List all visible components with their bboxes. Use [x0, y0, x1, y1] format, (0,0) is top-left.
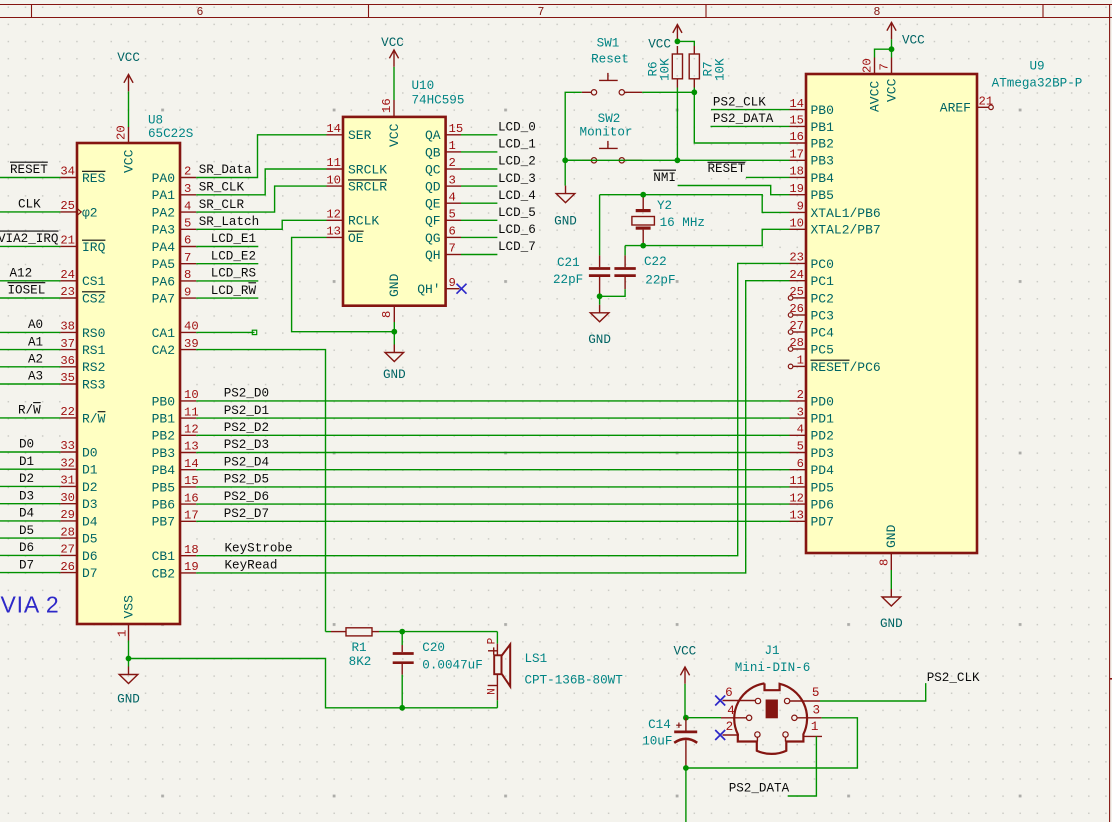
svg-text:Reset: Reset	[591, 53, 629, 67]
svg-text:XTAL1/PB6: XTAL1/PB6	[811, 206, 881, 221]
svg-text:VIA2_IRQ: VIA2_IRQ	[0, 232, 58, 246]
svg-text:A2: A2	[28, 353, 43, 367]
U9 pin 26 PC3	[793, 314, 806, 316]
svg-text:A1: A1	[28, 335, 43, 349]
svg-text:31: 31	[60, 474, 75, 488]
U8 pin 18 CB1	[180, 555, 196, 557]
svg-text:6: 6	[449, 225, 456, 239]
speaker LS1	[496, 632, 498, 644]
U8 pin 5 PA3	[180, 228, 196, 230]
U8 pin 25 φ2 / wire CLK	[0, 211, 60, 213]
U10 pin 8 GND (bottom)	[393, 306, 395, 322]
svg-text:PB3: PB3	[152, 446, 175, 461]
U8 pin 7 PA5	[180, 263, 196, 265]
svg-text:PB1: PB1	[152, 412, 176, 427]
svg-text:RS3: RS3	[82, 377, 105, 392]
U8 pin 37 RS1 / wire A1	[0, 349, 60, 351]
U8 pin 20 VCC (top)	[128, 127, 130, 143]
svg-text:KeyRead: KeyRead	[225, 559, 278, 573]
svg-text:25: 25	[789, 285, 804, 299]
svg-text:QH': QH'	[417, 282, 440, 297]
wire SR_Data	[196, 135, 326, 178]
U10 pin 10 SRCLR	[327, 185, 344, 187]
svg-text:GND: GND	[588, 333, 611, 347]
junction U10 GND node	[391, 329, 397, 335]
U8 pin 12 PB2	[180, 434, 196, 436]
U8 pin 36 RS2 / wire A2	[0, 366, 60, 368]
power symbol VCC above R6	[676, 25, 678, 42]
svg-text:Monitor: Monitor	[580, 126, 633, 140]
svg-text:PS2_DATA: PS2_DATA	[729, 781, 790, 795]
svg-text:SR_Latch: SR_Latch	[199, 215, 259, 229]
svg-text:PS2_CLK: PS2_CLK	[927, 671, 980, 685]
wire VCC to C14	[684, 684, 686, 718]
svg-text:22pF: 22pF	[645, 274, 675, 288]
svg-text:PC2: PC2	[811, 291, 834, 306]
svg-text:PD1: PD1	[811, 412, 835, 427]
svg-text:7: 7	[449, 242, 456, 256]
svg-text:0.0047uF: 0.0047uF	[422, 659, 482, 673]
svg-text:15: 15	[184, 474, 199, 488]
svg-text:PB2: PB2	[152, 429, 175, 444]
U9 pin 9 XTAL1/PB6	[790, 211, 807, 213]
U8 pin 21 IRQ / wire VIA2_IRQ	[0, 245, 60, 247]
svg-text:VCC: VCC	[387, 123, 402, 147]
svg-text:24: 24	[60, 268, 75, 282]
svg-text:PB7: PB7	[152, 515, 175, 530]
wire AVCC to VCC	[875, 49, 892, 57]
svg-text:CS2: CS2	[82, 291, 105, 306]
svg-text:VCC: VCC	[648, 38, 671, 52]
svg-text:D5: D5	[19, 524, 34, 538]
svg-text:D3: D3	[82, 497, 98, 512]
svg-text:27: 27	[60, 543, 75, 557]
svg-text:D0: D0	[82, 445, 98, 460]
U9 pin 20 AVCC (top)	[874, 58, 876, 75]
svg-text:QF: QF	[425, 214, 441, 229]
svg-text:27: 27	[789, 319, 804, 333]
svg-text:PC1: PC1	[811, 274, 835, 289]
svg-text:VCC: VCC	[674, 645, 697, 659]
svg-text:GND: GND	[383, 368, 406, 382]
wire LCD_2	[461, 168, 497, 170]
wire CA2 to R1	[196, 350, 325, 632]
svg-text:GND: GND	[117, 693, 140, 707]
wire LCD_0	[461, 134, 497, 136]
junction C21/C22 GND node	[597, 293, 603, 299]
U10 pin 2 QC	[446, 168, 461, 170]
svg-text:3: 3	[797, 405, 804, 419]
U8 pin 32 D1 / wire D1	[0, 468, 60, 470]
wire U8 VCC	[128, 91, 130, 127]
U10 pin 3 QD	[446, 185, 461, 187]
IC U10 74HC595 body	[343, 117, 446, 306]
svg-text:9: 9	[797, 200, 804, 214]
svg-text:28: 28	[789, 336, 804, 350]
svg-text:PB0: PB0	[152, 394, 175, 409]
svg-text:12: 12	[789, 491, 804, 505]
svg-text:28: 28	[60, 525, 75, 539]
svg-text:6: 6	[197, 6, 204, 19]
wire LCD_3	[461, 185, 497, 187]
U9 pin 4 PD2	[790, 434, 807, 436]
svg-text:12: 12	[184, 423, 199, 437]
U8 pin 39 CA2	[180, 349, 196, 351]
svg-text:35: 35	[60, 371, 75, 385]
svg-text:PA0: PA0	[152, 171, 175, 186]
svg-text:D6: D6	[82, 549, 98, 564]
U9 pin 28 PC5	[793, 348, 806, 350]
J1 pin 5	[790, 700, 820, 702]
svg-text:D7: D7	[82, 566, 98, 581]
svg-text:RES: RES	[82, 171, 106, 186]
power symbol VCC above C14	[684, 667, 686, 684]
IC U8 65C22S body	[77, 143, 180, 624]
svg-text:QH: QH	[425, 248, 441, 263]
svg-text:PB6: PB6	[152, 498, 175, 513]
svg-text:CLK: CLK	[18, 198, 41, 212]
U9 pin 13 PD7	[790, 520, 807, 522]
wire SW1 to R7 bottom node	[642, 91, 694, 93]
svg-text:QD: QD	[425, 180, 441, 195]
U10 pin 6 QG	[446, 236, 461, 238]
U8 pin 8 PA6	[180, 280, 196, 282]
junction R1/C20 node	[399, 629, 405, 635]
svg-text:QG: QG	[425, 231, 441, 246]
U9 pin 12 PD6	[790, 503, 807, 505]
U8 pin 26 D7 / wire D7	[0, 572, 60, 574]
U8 pin 11 PB1	[180, 417, 196, 419]
svg-text:7: 7	[538, 6, 545, 19]
svg-text:12: 12	[326, 208, 341, 222]
svg-text:6: 6	[725, 686, 733, 700]
svg-text:4: 4	[184, 199, 191, 213]
svg-text:11: 11	[184, 405, 199, 419]
svg-text:SR_CLR: SR_CLR	[199, 198, 245, 212]
svg-text:GND: GND	[387, 273, 402, 297]
svg-text:D5: D5	[82, 532, 98, 547]
svg-text:SR_CLK: SR_CLK	[199, 181, 245, 195]
U9 pin 25 PC2	[793, 297, 806, 299]
svg-text:PS2_D0: PS2_D0	[224, 387, 269, 401]
svg-text:U9: U9	[1029, 60, 1044, 74]
wire LCD_4	[461, 202, 497, 204]
no-connect X at U10 QH'	[457, 284, 467, 294]
svg-text:1: 1	[811, 720, 819, 734]
U8 pin 31 D2 / wire D2	[0, 485, 60, 487]
IC U9 ATmega328P body	[806, 74, 977, 553]
svg-text:P: P	[487, 637, 499, 644]
svg-text:C14: C14	[648, 718, 671, 732]
svg-text:J1: J1	[764, 644, 779, 658]
wire KeyRead	[196, 281, 789, 573]
power symbol GND below switches	[565, 186, 567, 194]
svg-text:18: 18	[184, 543, 199, 557]
svg-text:8: 8	[874, 6, 881, 19]
U10 pin 9 QH' (no connect)	[446, 288, 460, 290]
svg-text:18: 18	[789, 165, 804, 179]
svg-text:R/W: R/W	[18, 404, 41, 418]
svg-text:PS2_D2: PS2_D2	[224, 421, 269, 435]
wire C14 bottom to sheet bottom	[685, 768, 687, 822]
wire PS2_D1	[196, 417, 789, 419]
U9 pin 23 PC0	[790, 262, 807, 264]
wire PS2_D5	[196, 486, 789, 488]
svg-text:8: 8	[877, 559, 891, 566]
wire U8 GND to speaker rail	[129, 659, 498, 708]
power symbol GND below C21	[599, 305, 601, 313]
U10 pin 11 SRCLK	[327, 168, 344, 170]
svg-text:30: 30	[60, 491, 75, 505]
U9 pin 8 GND (bottom)	[890, 553, 892, 570]
svg-text:15: 15	[449, 122, 464, 136]
junction U8 GND node	[126, 656, 132, 662]
svg-text:LCD_1: LCD_1	[498, 138, 536, 152]
svg-text:2: 2	[797, 388, 804, 402]
svg-text:PA5: PA5	[152, 257, 175, 272]
U10 pin 14 SER	[327, 134, 344, 136]
svg-text:PC0: PC0	[811, 257, 834, 272]
wire PS2_D4	[196, 469, 789, 471]
svg-text:PC5: PC5	[811, 342, 834, 357]
svg-text:PD0: PD0	[811, 394, 834, 409]
no-connect X at J1 pin 2	[715, 730, 725, 740]
U10 pin 1 QB	[446, 151, 461, 153]
svg-text:PS2_DATA: PS2_DATA	[713, 112, 774, 126]
wire CA1 stub	[196, 331, 254, 333]
svg-text:7: 7	[878, 63, 892, 70]
svg-text:GND: GND	[884, 524, 899, 548]
svg-text:LS1: LS1	[525, 652, 548, 666]
capacitor C14 (polarized)	[685, 718, 687, 731]
svg-text:LCD_E2: LCD_E2	[211, 249, 256, 263]
U8 pin 6 PA4	[180, 246, 196, 248]
svg-text:OE: OE	[348, 231, 364, 246]
svg-text:PS2_D1: PS2_D1	[224, 404, 269, 418]
svg-text:C21: C21	[557, 256, 580, 270]
svg-text:SER: SER	[348, 128, 372, 143]
svg-text:LCD_5: LCD_5	[498, 206, 536, 220]
svg-text:PB5: PB5	[152, 480, 175, 495]
svg-text:AVCC: AVCC	[867, 81, 882, 112]
wire SW2 left	[565, 159, 582, 161]
U8 pin 40 CA1	[180, 331, 196, 333]
wire XTAL1 net	[600, 195, 790, 213]
U8 pin 14 PB4	[180, 469, 196, 471]
svg-text:19: 19	[789, 182, 804, 196]
svg-text:11: 11	[789, 474, 804, 488]
U10 pin 12 RCLK	[327, 219, 344, 221]
svg-text:3: 3	[449, 173, 456, 187]
U8 pin 15 PB5	[180, 486, 196, 488]
svg-text:A3: A3	[28, 370, 43, 384]
svg-text:PS2_CLK: PS2_CLK	[713, 95, 766, 109]
svg-text:14: 14	[326, 122, 341, 136]
wire XTAL2 net	[625, 229, 789, 245]
wire LCD_E2	[196, 263, 258, 265]
svg-text:14: 14	[184, 457, 199, 471]
U9 pin 18 PB4	[790, 176, 807, 178]
svg-text:5: 5	[449, 208, 456, 222]
capacitor C20	[401, 632, 403, 645]
power symbol VCC above U9	[891, 22, 893, 39]
svg-text:LCD_6: LCD_6	[498, 223, 536, 237]
U9 pin 27 PC4	[793, 331, 806, 333]
svg-text:17: 17	[789, 148, 804, 162]
U8 pin 34 RES / wire RESET	[0, 177, 60, 179]
wire C21 down	[599, 296, 601, 305]
svg-text:PS2_D5: PS2_D5	[224, 473, 269, 487]
J1 pin 6	[723, 700, 756, 702]
svg-text:11: 11	[326, 156, 341, 170]
resistor R1	[346, 628, 372, 636]
wire LCD_7	[461, 254, 497, 256]
svg-text:LCD_4: LCD_4	[498, 189, 536, 203]
svg-text:LCD_3: LCD_3	[498, 172, 536, 186]
wire SR_CLK	[196, 169, 326, 195]
svg-text:2: 2	[184, 165, 191, 179]
svg-text:PA1: PA1	[152, 188, 176, 203]
svg-text:R1: R1	[351, 641, 366, 655]
svg-text:RS0: RS0	[82, 326, 105, 341]
svg-text:φ2: φ2	[82, 205, 98, 220]
capacitor C21	[599, 195, 601, 256]
sheet frame border	[0, 4, 1112, 6]
svg-text:PA7: PA7	[152, 292, 175, 307]
wire SW1 left to GND rail	[565, 92, 582, 185]
wire R7 node to U9 PB2	[694, 92, 789, 143]
svg-text:PA2: PA2	[152, 206, 175, 221]
wire PS2_D7	[196, 520, 789, 522]
svg-text:10: 10	[326, 173, 341, 187]
svg-text:16: 16	[184, 491, 199, 505]
svg-text:7: 7	[184, 251, 191, 265]
svg-text:D2: D2	[19, 472, 34, 486]
U8 pin 29 D4 / wire D4	[0, 520, 60, 522]
svg-text:VCC: VCC	[117, 51, 140, 65]
svg-text:21: 21	[979, 95, 994, 109]
svg-text:PD6: PD6	[811, 498, 834, 513]
svg-text:PA6: PA6	[152, 274, 175, 289]
wire LCD_1	[461, 151, 497, 153]
switch SW2 (Monitor)	[591, 158, 596, 163]
capacitor C22	[624, 246, 626, 256]
wire U8 VSS to GND	[128, 641, 130, 667]
svg-text:16: 16	[789, 130, 804, 144]
svg-text:2: 2	[449, 156, 456, 170]
wire R7 bottom	[693, 88, 695, 93]
svg-text:NMI: NMI	[653, 171, 676, 185]
svg-text:PB4: PB4	[811, 171, 835, 186]
svg-text:VCC: VCC	[884, 78, 899, 102]
svg-text:SRCLK: SRCLK	[348, 162, 387, 177]
U9 pin 21 AREF	[977, 106, 988, 108]
wire LCD_RW	[196, 297, 258, 299]
U8 pin 24 CS1 / wire A12	[0, 280, 60, 282]
power symbol GND below U8	[128, 667, 130, 675]
svg-text:IOSEL: IOSEL	[8, 284, 46, 298]
U8 pin 27 D6 / wire D6	[0, 554, 60, 556]
wire PS2_DATA from J1 pin 1	[788, 736, 817, 796]
wire LCD_6	[461, 236, 497, 238]
U9 pin 5 PD3	[790, 452, 807, 454]
connector J1 Mini-DIN-6 outline	[734, 683, 807, 753]
svg-text:PD2: PD2	[811, 429, 834, 444]
svg-text:4: 4	[797, 423, 804, 437]
U10 pin 7 QH	[446, 254, 461, 256]
U8 pin 4 PA2	[180, 211, 196, 213]
svg-text:RESET: RESET	[10, 163, 48, 177]
svg-text:ATmega32BP-P: ATmega32BP-P	[992, 77, 1083, 91]
no-connect X at J1 pin 6	[715, 696, 725, 706]
wire PS2_DATA stub	[711, 125, 790, 127]
U8 pin 30 D3 / wire D3	[0, 503, 60, 505]
svg-text:PS2_D7: PS2_D7	[224, 507, 269, 521]
svg-text:8K2: 8K2	[349, 655, 372, 669]
svg-text:RCLK: RCLK	[348, 214, 379, 229]
svg-text:16 MHz: 16 MHz	[660, 216, 705, 230]
U10 pin 5 QF	[446, 219, 461, 221]
U8 pin 9 PA7	[180, 297, 196, 299]
U8 pin 3 PA1	[180, 194, 196, 196]
svg-text:16: 16	[380, 98, 394, 113]
svg-text:LCD_0: LCD_0	[498, 121, 536, 135]
J1 pin 1	[785, 737, 787, 742]
U8 pin 2 PA0	[180, 177, 196, 179]
svg-text:29: 29	[60, 508, 75, 522]
svg-text:22: 22	[60, 405, 75, 419]
junction crystal bottom node	[640, 243, 646, 249]
svg-text:32: 32	[60, 456, 75, 470]
svg-text:14: 14	[789, 97, 804, 111]
svg-text:PS2_D4: PS2_D4	[224, 455, 269, 469]
wire SW2 row to U9 PB3	[565, 159, 789, 161]
svg-text:PB0: PB0	[811, 103, 834, 118]
svg-text:24: 24	[789, 268, 804, 282]
svg-text:PB3: PB3	[811, 154, 834, 169]
wire PS2_D2	[196, 434, 789, 436]
crystal Y2	[642, 195, 644, 209]
svg-text:15: 15	[789, 114, 804, 128]
svg-text:LCD_2: LCD_2	[498, 155, 536, 169]
svg-text:1: 1	[116, 630, 130, 637]
svg-text:PB4: PB4	[152, 463, 176, 478]
svg-text:CA2: CA2	[152, 343, 175, 358]
svg-text:39: 39	[184, 337, 199, 351]
U8 pin 19 CB2	[180, 572, 196, 574]
svg-text:10: 10	[184, 388, 199, 402]
wire RESET stub to U9 PB4	[746, 176, 790, 178]
U9 pin 10 XTAL2/PB7	[790, 228, 807, 230]
svg-text:PS2_D3: PS2_D3	[224, 438, 269, 452]
svg-text:2: 2	[726, 720, 734, 734]
svg-text:26: 26	[789, 302, 804, 316]
U9 pin 15 PB1	[790, 125, 807, 127]
svg-text:19: 19	[184, 560, 199, 574]
wire PS2_CLK from J1 pin 5	[820, 683, 926, 701]
wire SR_Latch	[196, 220, 326, 229]
svg-text:34: 34	[60, 165, 75, 179]
svg-text:A12: A12	[10, 267, 33, 281]
svg-text:21: 21	[60, 234, 75, 248]
junction crystal top node	[640, 192, 646, 198]
U9 pin 16 PB2	[790, 142, 807, 144]
svg-text:RS1: RS1	[82, 343, 106, 358]
svg-text:1: 1	[449, 139, 456, 153]
svg-text:D2: D2	[82, 480, 98, 495]
svg-text:36: 36	[60, 354, 75, 368]
wire KeyStrobe	[196, 263, 789, 555]
